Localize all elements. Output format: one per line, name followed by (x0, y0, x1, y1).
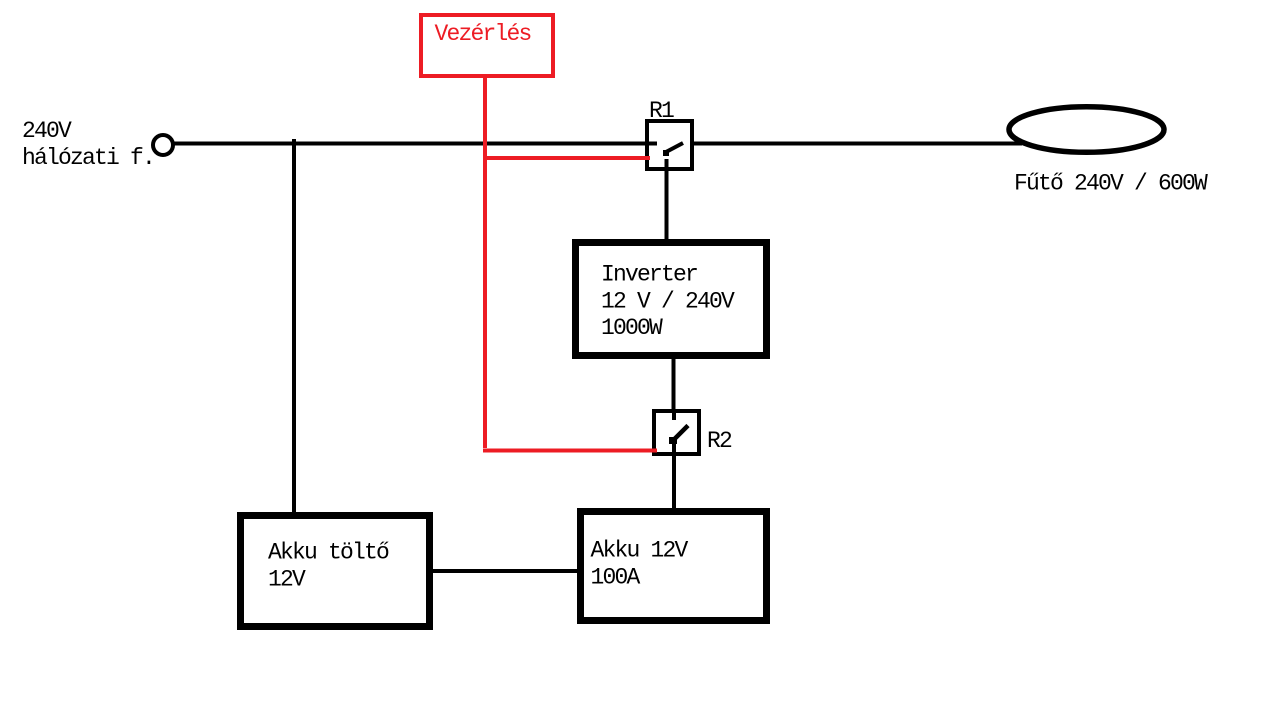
relay R2 body (654, 411, 699, 454)
R1 bottom pin stub (665, 159, 669, 171)
svg-text:Fűtő 240V / 600W: Fűtő 240V / 600W (1014, 171, 1208, 197)
R2 bottom pin / wire to battery (672, 441, 676, 508)
label: Akku 12V 100A (591, 538, 689, 591)
relay R1 body (647, 121, 692, 169)
label: Akku töltő 12V (268, 540, 389, 593)
wire: red control line to relay R1 coil (483, 156, 650, 160)
wire: red control line to relay R2 coil (483, 449, 657, 453)
svg-text:hálózati f.: hálózati f. (22, 145, 154, 171)
terminal: 240V mains input circle (153, 135, 173, 155)
svg-text:Vezérlés: Vezérlés (435, 21, 531, 47)
svg-text:Akku töltő: Akku töltő (268, 540, 389, 566)
wire: charger to battery (433, 569, 577, 573)
svg-text:Inverter: Inverter (601, 262, 697, 288)
wire: R1 to inverter (665, 171, 669, 239)
svg-text:R2: R2 (707, 428, 732, 454)
R1 contact dot (663, 150, 669, 156)
svg-text:100A: 100A (591, 565, 641, 591)
svg-text:12V: 12V (268, 567, 306, 593)
R1 switch arm (666, 143, 683, 152)
wire: branch down to battery charger (292, 139, 296, 512)
svg-text:240V: 240V (22, 118, 72, 144)
label: Inverter 12 V / 240V 1000W (601, 262, 735, 342)
node label: 240V hálózati f. (22, 118, 154, 171)
R1 left contact stub (649, 142, 657, 146)
control box U1: Vezérlés (421, 15, 553, 76)
heater load ellipse (1009, 107, 1164, 153)
wire: red control line vertical from Vezérlés (483, 78, 487, 448)
R2 contact dot (669, 437, 677, 444)
R2 switch arm (672, 426, 689, 443)
inverter box (576, 243, 767, 356)
R2 top pin stub (672, 413, 676, 420)
wire: inverter to R2 (672, 359, 676, 409)
charger box: Akku töltő 12V (241, 516, 430, 627)
svg-text:12 V / 240V: 12 V / 240V (601, 289, 735, 315)
wire: main 240V bus (terminal to heater) (173, 142, 1022, 146)
battery box: Akku 12V 100A (581, 512, 767, 621)
svg-text:Akku 12V: Akku 12V (591, 538, 689, 564)
svg-text:1000W: 1000W (601, 315, 663, 341)
svg-text:R1: R1 (649, 98, 674, 124)
